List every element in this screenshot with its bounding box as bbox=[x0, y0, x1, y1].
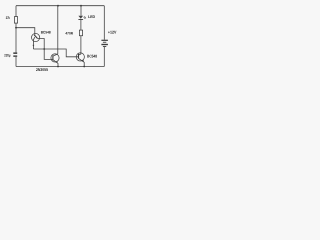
svg-text:220µ: 220µ bbox=[4, 54, 10, 58]
svg-text:BC548: BC548 bbox=[41, 31, 51, 35]
svg-text:+12V: +12V bbox=[108, 29, 117, 34]
svg-text:2N3055: 2N3055 bbox=[36, 67, 49, 72]
svg-text:BC548: BC548 bbox=[87, 53, 98, 58]
svg-text:LED: LED bbox=[88, 14, 95, 19]
svg-text:27k: 27k bbox=[6, 16, 10, 20]
svg-text:470R: 470R bbox=[65, 31, 73, 35]
